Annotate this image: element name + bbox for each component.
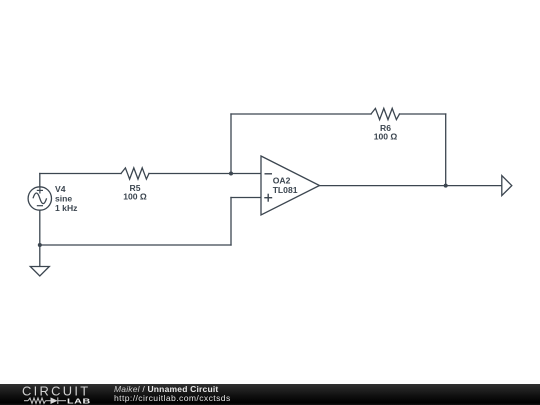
svg-text:100 Ω: 100 Ω xyxy=(374,132,398,142)
wire: plus branch vertical xyxy=(230,198,232,246)
labels xyxy=(55,123,397,213)
wire: V4 top to R5 left xyxy=(40,173,121,175)
ground xyxy=(30,267,49,277)
wire: plus input horizontal xyxy=(231,197,261,199)
resistor R5 xyxy=(121,168,149,179)
node: ground junction xyxy=(38,243,42,247)
output port arrow xyxy=(502,176,512,196)
op-amp OA2 xyxy=(261,156,320,215)
node: feedback/minus junction xyxy=(229,172,233,176)
wire: top feedback right segment xyxy=(400,113,446,115)
wire: V4 top stub xyxy=(39,174,41,188)
node: output junction xyxy=(444,184,448,188)
svg-text:LAB: LAB xyxy=(67,397,91,405)
op-amp non-inverting input marker xyxy=(264,197,272,199)
svg-text:100 Ω: 100 Ω xyxy=(123,192,147,202)
wire: R5 right to op-amp minus input xyxy=(149,173,261,175)
wire: op-amp output xyxy=(320,185,502,187)
footer bar xyxy=(0,384,540,405)
svg-text:TL081: TL081 xyxy=(273,185,298,195)
wire: V4 bottom to ground node xyxy=(39,210,41,267)
resistor R6 xyxy=(371,108,400,119)
op-amp inverting input marker xyxy=(265,173,273,175)
wire: feedback right vertical down to output xyxy=(445,114,447,186)
voltage source V4 xyxy=(28,187,51,210)
logo resistor-diode glyph xyxy=(24,397,66,404)
wire: feedback vertical xyxy=(230,114,232,174)
svg-text:1 kHz: 1 kHz xyxy=(55,203,77,213)
svg-text:http://circuitlab.com/cxctsds: http://circuitlab.com/cxctsds xyxy=(114,393,231,403)
wire: top feedback left segment xyxy=(231,113,371,115)
wire: bottom horizontal to plus branch xyxy=(40,244,231,246)
